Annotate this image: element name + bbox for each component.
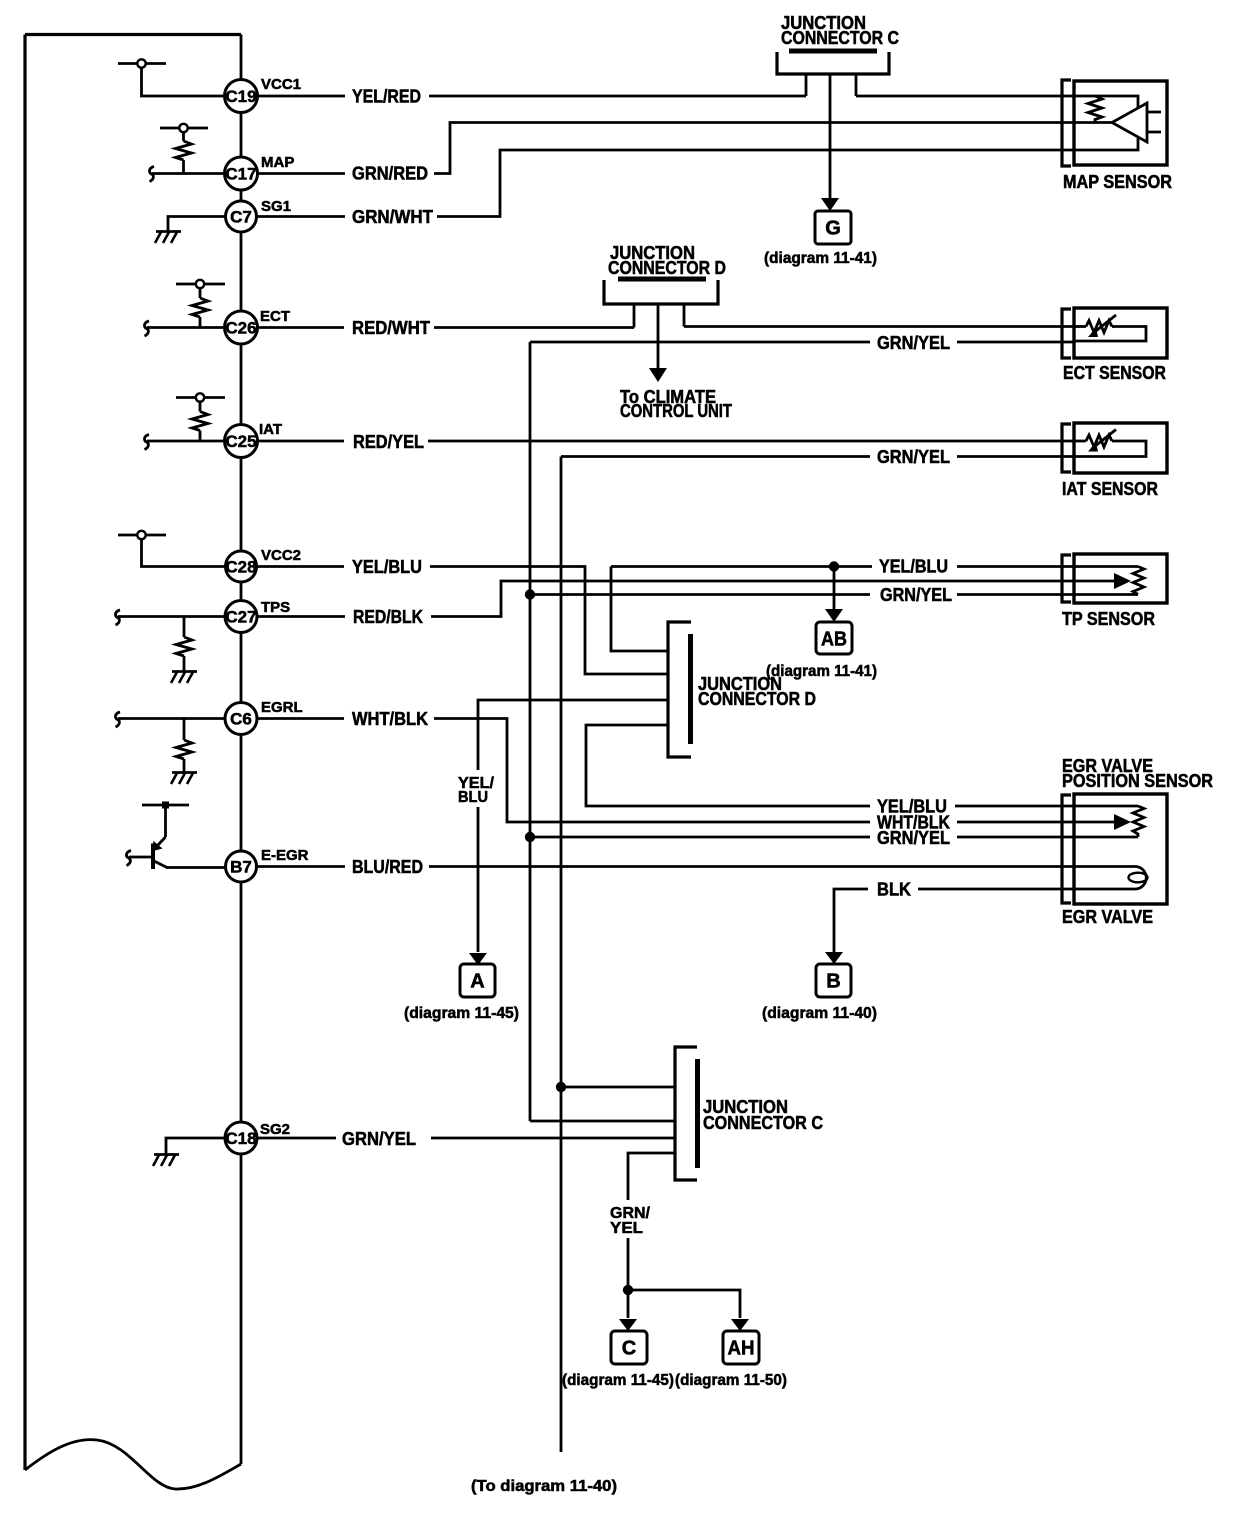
wire RED/YEL row (C25 IAT) (258, 440, 1074, 443)
junction dot GRN/YEL bottom branch (623, 1285, 633, 1295)
wire WHT/BLK row (C6 EGRL) (258, 719, 1074, 823)
wire RED/WHT row (C26 ECT) (258, 326, 634, 329)
wire YEL/BLU branch down to A (478, 700, 668, 952)
internal supply wire (1075, 96, 1138, 108)
power terminal for C19 (VCC1) (118, 59, 225, 96)
pin C28 (226, 551, 257, 582)
svg-text:BLK: BLK (877, 880, 911, 900)
svg-text:BLU/RED: BLU/RED (352, 857, 423, 877)
wire YEL/BLU row right part to TP sensor (611, 565, 1074, 568)
thermistor arrow (1092, 315, 1116, 334)
wire from junction connector D up-stub to YEL/BLU (611, 567, 668, 652)
internal resistor (piezo bridge) (1088, 96, 1102, 123)
ground + wire for C18 (SG2) (153, 1138, 225, 1166)
pin to YEL/RED left (805, 74, 808, 96)
pin to RED/WHT left (633, 304, 636, 328)
wire stub x530 corner to junction connector C (530, 1120, 675, 1123)
wire GRN/WHT row (C7 SG1) (257, 150, 1074, 217)
svg-text:C28: C28 (225, 558, 256, 577)
hook + pulldown resistor + ground for C27 (TPS) (115, 610, 225, 683)
svg-text:G: G (825, 218, 841, 240)
arrow + reference box A (460, 953, 495, 997)
svg-text:RED/YEL: RED/YEL (353, 432, 424, 452)
svg-text:C26: C26 (225, 319, 256, 338)
wire YEL/BLU to EGR valve position sensor (586, 725, 1074, 806)
pin C7 (226, 201, 257, 232)
svg-text:EGR VALVE: EGR VALVE (1062, 907, 1153, 927)
ECT sensor (1062, 308, 1167, 358)
svg-text:GRN/YEL: GRN/YEL (880, 585, 952, 605)
output stubs (1147, 112, 1161, 132)
svg-text:RED/WHT: RED/WHT (352, 318, 430, 338)
arrow + reference box B (816, 952, 851, 997)
resistor (C26 pull-up) (192, 298, 208, 317)
resistor (C27 pull-down) (176, 637, 192, 656)
svg-text:ECT SENSOR: ECT SENSOR (1063, 363, 1166, 383)
wiper arrow (1075, 821, 1116, 824)
hook terminal C25 row (144, 435, 149, 450)
solenoid core ellipse (1129, 873, 1148, 883)
wire GRN/YEL to EGR valve position sensor (530, 836, 1074, 839)
wire RED/BLK row (C27 TPS) (258, 581, 1074, 617)
hook + pulldown resistor + ground for C6 (EGRL) (115, 712, 225, 784)
svg-text:TPS: TPS (261, 599, 290, 616)
svg-text:IAT SENSOR: IAT SENSOR (1062, 479, 1158, 499)
svg-text:C: C (622, 1338, 636, 1360)
arrow + reference box AH (723, 1319, 759, 1364)
pin C6 (225, 703, 257, 735)
reference box G (815, 211, 851, 244)
svg-text:CONNECTOR C: CONNECTOR C (781, 28, 899, 48)
middle pin down to G (829, 74, 832, 201)
wire GRN/YEL (ECT sensor ground) (530, 341, 1074, 344)
junction dot GRN/YEL at x530 (525, 589, 535, 599)
pin B7 (226, 851, 257, 882)
junction connector D (middle, vertical) housing (668, 622, 691, 757)
wire vertical GRN/YEL x530 down to junction connector C (529, 342, 532, 1121)
hook terminal C26 row (144, 321, 149, 336)
thermistor arrow (1092, 430, 1116, 449)
resistor (C25 pull-up) (192, 412, 208, 431)
svg-text:(diagram 11-41): (diagram 11-41) (764, 250, 877, 267)
svg-text:MAP: MAP (261, 154, 294, 171)
svg-text:CONNECTOR C: CONNECTOR C (703, 1113, 823, 1133)
svg-text:B7: B7 (230, 858, 252, 877)
op-amp triangle (1112, 103, 1147, 142)
power terminal + resistor for C26 (ECT) (144, 280, 225, 336)
svg-text:EGRL: EGRL (261, 699, 303, 716)
hook terminal transistor base (126, 851, 131, 866)
ground + wire for C7 (SG1) (155, 217, 226, 244)
junction connector C (top) housing (777, 51, 889, 211)
junction dot GRN/YEL at x530 EGR branch (525, 832, 535, 842)
wire BLK from EGR valve to B (834, 889, 1074, 952)
pin to RED/WHT right (683, 304, 686, 327)
svg-text:GRN/WHT: GRN/WHT (352, 207, 433, 227)
svg-text:YEL/BLU: YEL/BLU (352, 557, 422, 577)
arrow + reference box C (611, 1319, 647, 1364)
resistor (C6 pull-down) (176, 740, 192, 759)
svg-text:AB: AB (821, 629, 847, 651)
svg-text:A: A (470, 971, 484, 993)
arrow into G (821, 198, 839, 211)
svg-text:CONNECTOR D: CONNECTOR D (608, 258, 726, 278)
arrow + reference box AB (816, 609, 852, 654)
arrow to climate control (649, 368, 667, 382)
svg-text:GRN/YEL: GRN/YEL (877, 447, 950, 467)
svg-text:C17: C17 (225, 165, 256, 184)
svg-text:TP SENSOR: TP SENSOR (1062, 609, 1155, 629)
solenoid coil loop (1075, 867, 1146, 890)
pin C27 (225, 601, 257, 633)
svg-text:MAP SENSOR: MAP SENSOR (1063, 172, 1172, 192)
svg-text:CONTROL UNIT: CONTROL UNIT (620, 401, 732, 421)
pin C19 (225, 80, 258, 113)
wire stub from junction connector C down to C and AH (628, 1153, 675, 1318)
junction connector D (top) housing (604, 279, 718, 382)
svg-text:AH: AH (728, 1338, 755, 1360)
svg-text:C19: C19 (225, 87, 256, 106)
svg-text:YEL: YEL (610, 1220, 643, 1237)
junction dot YEL/BLU branch to AB (829, 561, 839, 571)
svg-text:(diagram 11-45): (diagram 11-45) (404, 1005, 519, 1022)
wire YEL/BLU row (C28 VCC2) left part (257, 567, 668, 675)
pin C17 (225, 157, 258, 190)
svg-text:CONNECTOR D: CONNECTOR D (698, 689, 816, 709)
transistor Q (E-EGR driver) (126, 802, 226, 870)
svg-text:IAT: IAT (259, 421, 282, 438)
svg-text:SG2: SG2 (260, 1121, 290, 1138)
thermistor zigzag (1075, 440, 1086, 443)
svg-text:RED/BLK: RED/BLK (353, 607, 423, 627)
IAT sensor (1062, 423, 1167, 473)
wire: ECU left edge (23, 35, 26, 1471)
wire RED/WHT right segment to ECT sensor (684, 325, 1074, 328)
svg-text:GRN/RED: GRN/RED (352, 164, 428, 184)
svg-text:GRN/YEL: GRN/YEL (877, 828, 950, 848)
middle pin down to climate control (657, 304, 660, 371)
wire GRN/RED row (C17 MAP) (258, 123, 1074, 174)
thermistor zigzag (1075, 325, 1086, 328)
pin to YEL/RED right (855, 74, 858, 96)
pin C25 (225, 425, 258, 458)
junction connector C (lower, vertical) housing (675, 1047, 698, 1180)
svg-text:YEL/BLU: YEL/BLU (879, 557, 948, 577)
pin C18 (225, 1122, 257, 1154)
pot element (1075, 565, 1138, 568)
wire GRN/YEL (IAT sensor ground) (561, 455, 1074, 458)
wiper arrow (1075, 580, 1116, 583)
svg-text:E-EGR: E-EGR (261, 847, 309, 864)
TP sensor (1062, 554, 1167, 603)
svg-text:(To diagram 11-40): (To diagram 11-40) (471, 1478, 617, 1495)
svg-text:SG1: SG1 (261, 198, 291, 215)
pin C26 (225, 311, 258, 344)
wire: ECU right edge (connector rail) (240, 35, 243, 1465)
svg-text:GRN/YEL: GRN/YEL (877, 333, 950, 353)
internal signal wire (1075, 121, 1112, 124)
svg-text:C25: C25 (225, 432, 256, 451)
svg-text:C27: C27 (225, 608, 256, 627)
svg-text:(diagram 11-45): (diagram 11-45) (562, 1372, 674, 1389)
svg-text:VCC1: VCC1 (261, 76, 301, 93)
pot element (1075, 805, 1138, 808)
svg-text:(diagram 11-40): (diagram 11-40) (762, 1005, 877, 1022)
svg-text:B: B (826, 971, 840, 993)
wire BLU/RED row (B7 E-EGR) (256, 865, 1074, 868)
power terminal for C28 (VCC2) (118, 531, 226, 567)
power terminal + resistor for C25 (IAT) (144, 393, 225, 449)
wire: ECU top edge (25, 33, 241, 36)
internal ground wire (1075, 138, 1138, 150)
svg-text:BLU: BLU (458, 789, 488, 806)
ground (C27) (172, 670, 197, 673)
svg-text:ECT: ECT (260, 308, 290, 325)
wire AB branch vertical (833, 567, 836, 610)
svg-text:WHT/BLK: WHT/BLK (352, 709, 428, 729)
hook terminal C17 row (149, 167, 154, 182)
svg-text:VCC2: VCC2 (261, 547, 301, 564)
svg-text:GRN/YEL: GRN/YEL (342, 1129, 416, 1149)
wire stub x561 dot to junction connector C (556, 1082, 566, 1092)
wire vertical GRN/YEL x561 down to bottom of diagram (560, 457, 563, 1453)
wire GRN/YEL row (C18 SG2) (257, 1137, 675, 1140)
svg-text:C18: C18 (225, 1129, 256, 1148)
svg-text:POSITION SENSOR: POSITION SENSOR (1062, 771, 1213, 791)
wire GRN/YEL row (TP sensor ground) (530, 593, 1074, 596)
ECM/ECU block outline (25, 35, 241, 1490)
svg-text:C7: C7 (230, 208, 252, 227)
power terminal + resistor for C17 (MAP) (149, 124, 225, 182)
svg-text:YEL/RED: YEL/RED (352, 87, 421, 107)
MAP sensor (1062, 80, 1167, 166)
wire: ECU bottom torn wavy edge (25, 1440, 241, 1489)
wire YEL/RED row (C19 VCC1) (258, 95, 1074, 98)
EGR valve position sensor + EGR valve (1062, 794, 1167, 904)
svg-text:(diagram 11-50): (diagram 11-50) (675, 1372, 787, 1389)
svg-text:C6: C6 (230, 710, 252, 729)
ground (C6) (172, 771, 197, 774)
svg-text:(diagram 11-41): (diagram 11-41) (766, 663, 877, 680)
wire branch to AH (628, 1290, 740, 1318)
resistor (C17 pull-up) (176, 141, 192, 160)
